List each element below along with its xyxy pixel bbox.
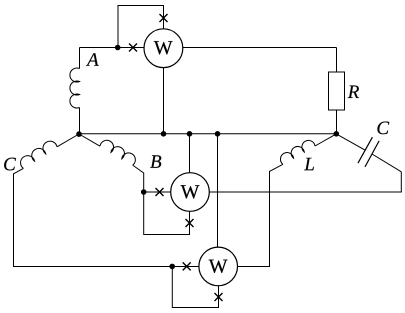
polarity mark on W1 loop [160,14,168,22]
inductor A [70,68,80,108]
wire: W2 top vertical [189,134,191,173]
wire: W1 bottom vertical to bus [163,67,165,133]
capacitor C plate 2 [365,141,379,167]
wire: main bus [79,133,336,135]
wire: W3 voltage loop [172,267,218,308]
label C phase [4,158,16,171]
resistor R [329,72,345,110]
label L [304,158,314,170]
wire: phase B upper diagonal [79,134,100,146]
wattmeter W1 [144,29,183,68]
node: W1 bus junction [161,131,167,137]
wire: R branch vertical bottom [336,110,338,134]
wire: phase C upper diagonal [57,134,79,147]
wire: W1 voltage-coil loop [118,6,164,48]
wire: phase C lower diagonal + left vertical + bottom to W3 [14,168,199,266]
wire: capacitor upper diagonal [336,134,365,150]
label C capacitor [377,122,389,135]
polarity mark on W2 loop [186,219,194,227]
wire: W2 right to capacitor corner [209,172,401,192]
wire: phase B lower diagonal + vertical to W2 [133,165,144,192]
wire: W3 right + vertical up to L [238,164,283,266]
wire: L upper diagonal [315,134,336,146]
polarity mark on W3 loop [215,293,223,301]
wire: top horizontal right of W1 to R branch corner [183,47,337,49]
wattmeter W3 [199,247,238,286]
node: W1 loop junction [115,45,121,51]
node: R/L/C junction [334,131,340,137]
polarity mark on W1 left wire [129,44,137,52]
label A [86,53,99,66]
inductor C (phase) [21,141,57,168]
polarity mark on W2 left wire [156,188,164,196]
wire: R branch vertical top [336,48,338,73]
wire: top horizontal left of W1 [80,47,145,49]
wire: phase A vertical upper [79,48,81,69]
inductor L [280,140,315,164]
wire: W3 top vertical [217,134,219,248]
wire: W2 voltage loop [144,192,190,235]
wire: phase A vertical lower [79,108,81,135]
capacitor C plate 1 [358,137,372,163]
label R [348,86,359,98]
node: neutral junction [76,131,82,137]
label B [150,155,161,168]
node: W2 left junction [141,189,147,195]
wattmeter W2 [171,173,210,212]
node: W3 left junction [169,264,175,270]
node: W3 bus junction [215,131,221,137]
inductor B [100,140,135,165]
polarity mark on W3 left wire [183,262,191,270]
wire: capacitor lower diagonal [372,154,401,172]
node: W2 bus junction [187,131,193,137]
wire: W2 left [144,191,171,193]
